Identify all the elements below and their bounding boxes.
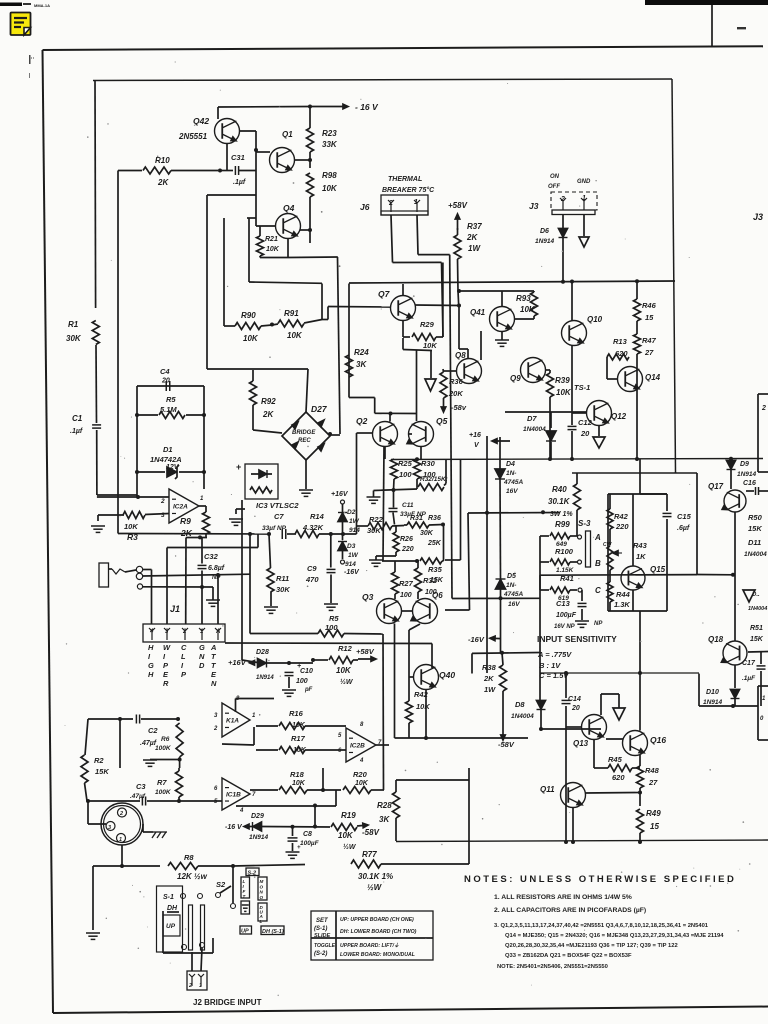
svg-text:R9: R9 <box>180 516 191 526</box>
svg-text:SET: SET <box>316 918 329 924</box>
svg-text:2: 2 <box>761 405 766 412</box>
svg-text:R32/15K:: R32/15K: <box>420 476 448 483</box>
svg-text:Q15: Q15 <box>650 565 666 574</box>
svg-text:10K: 10K <box>336 666 352 675</box>
svg-text:20: 20 <box>580 429 590 438</box>
svg-text:914: 914 <box>345 561 356 568</box>
svg-text:-16 V: -16 V <box>225 824 243 831</box>
svg-text:30K: 30K <box>420 530 434 537</box>
svg-text:-58V: -58V <box>362 828 380 837</box>
svg-text:Q14 = MJE350; Q15 = 2N4320; Q1: Q14 = MJE350; Q15 = 2N4320; Q16 = MJE348… <box>505 933 724 939</box>
svg-text:15: 15 <box>645 313 654 322</box>
svg-text:1: 1 <box>119 837 122 843</box>
svg-text:15: 15 <box>650 822 659 831</box>
svg-text:16V: 16V <box>506 488 518 495</box>
svg-text:Q16: Q16 <box>650 735 666 745</box>
svg-text:TS-1: TS-1 <box>574 383 590 392</box>
svg-text:+: + <box>236 462 241 472</box>
svg-text:C15: C15 <box>677 512 692 521</box>
svg-text:5.1M: 5.1M <box>160 405 177 414</box>
svg-text:2: 2 <box>160 498 165 505</box>
svg-text:R24: R24 <box>354 348 369 357</box>
svg-text:470: 470 <box>305 575 319 584</box>
svg-text:10K: 10K <box>243 334 259 343</box>
svg-text:L: L <box>260 919 263 924</box>
svg-text:1N4742A: 1N4742A <box>150 455 182 464</box>
svg-text:½W: ½W <box>367 883 383 892</box>
svg-text:J6: J6 <box>360 202 370 212</box>
svg-text:R36: R36 <box>449 377 464 386</box>
svg-text:100K: 100K <box>155 789 172 796</box>
svg-text:A = .775V: A = .775V <box>537 650 572 659</box>
svg-text:R99: R99 <box>555 520 570 529</box>
svg-text:2: 2 <box>182 629 187 635</box>
svg-text:220: 220 <box>401 546 414 553</box>
svg-text:½W: ½W <box>340 678 354 686</box>
svg-text:D2: D2 <box>347 509 356 516</box>
svg-text:R16: R16 <box>289 709 304 718</box>
svg-text:GND: GND <box>577 179 591 185</box>
svg-text:C13: C13 <box>556 599 571 608</box>
svg-text:R38: R38 <box>482 663 497 672</box>
svg-text:R20: R20 <box>353 770 368 779</box>
svg-text:S2: S2 <box>216 880 226 889</box>
svg-text:BRIDGE: BRIDGE <box>292 430 316 436</box>
svg-text:R51: R51 <box>750 625 763 632</box>
svg-text:R22: R22 <box>369 515 384 524</box>
svg-text:R1: R1 <box>68 320 79 329</box>
svg-text:15K: 15K <box>750 636 764 643</box>
svg-text:TOGGLE: TOGGLE <box>314 943 336 949</box>
svg-text:Q9: Q9 <box>510 374 521 383</box>
svg-text:Q6: Q6 <box>432 591 443 600</box>
svg-text:1W: 1W <box>348 552 359 559</box>
svg-text:B: B <box>595 559 601 568</box>
svg-text:220: 220 <box>615 522 629 531</box>
svg-text:.47µf: .47µf <box>130 793 146 800</box>
svg-text:A: A <box>215 629 220 635</box>
svg-text:-58v: -58v <box>451 403 467 412</box>
svg-text:30K: 30K <box>66 334 82 343</box>
svg-text:1. ALL RESISTORS ARE IN OHMS: 1. ALL RESISTORS ARE IN OHMS 1/4W 5% <box>494 894 632 901</box>
svg-text:Q12: Q12 <box>611 412 627 421</box>
svg-text:Q17: Q17 <box>708 482 724 491</box>
svg-text:N: N <box>199 652 205 661</box>
svg-text:S-2: S-2 <box>248 871 257 877</box>
svg-text:R30: R30 <box>421 459 436 468</box>
svg-text:6.8µf: 6.8µf <box>208 565 225 572</box>
svg-text:R6: R6 <box>161 736 170 743</box>
svg-text:REC: REC <box>298 438 311 444</box>
svg-text:R2: R2 <box>94 756 104 765</box>
svg-text:4: 4 <box>239 808 244 814</box>
svg-text:C10: C10 <box>300 668 313 675</box>
svg-text:D8: D8 <box>515 700 525 709</box>
svg-text:33K: 33K <box>322 140 338 149</box>
svg-text:20: 20 <box>571 705 580 712</box>
svg-text:Q10: Q10 <box>587 315 603 324</box>
svg-text:C12: C12 <box>578 418 593 427</box>
svg-text:25K: 25K <box>427 540 442 547</box>
svg-text:10K: 10K <box>322 184 338 193</box>
svg-text:+58V: +58V <box>448 201 468 210</box>
svg-text:+: + <box>297 845 301 851</box>
svg-text:C11: C11 <box>402 502 414 509</box>
svg-text:R13: R13 <box>613 337 628 346</box>
svg-text:D6: D6 <box>540 228 549 235</box>
svg-text:4745A: 4745A <box>503 479 523 486</box>
svg-text:10K: 10K <box>355 780 369 787</box>
svg-text:R23: R23 <box>322 129 337 138</box>
svg-text:R45: R45 <box>608 755 623 764</box>
svg-text:IC2B: IC2B <box>350 743 365 750</box>
svg-text:DH: LOWER BOARD (CH TWO): DH: LOWER BOARD (CH TWO) <box>340 929 417 935</box>
svg-text:3K: 3K <box>379 815 390 824</box>
svg-text:DH (S-1): DH (S-1) <box>262 929 284 935</box>
svg-text:100: 100 <box>399 470 412 479</box>
svg-text:J3: J3 <box>529 201 539 211</box>
svg-text:R93: R93 <box>516 294 531 303</box>
svg-text:1N914: 1N914 <box>256 675 274 681</box>
svg-text:Q1: Q1 <box>282 130 293 139</box>
svg-text:Q40: Q40 <box>439 670 455 680</box>
svg-text:1.3K: 1.3K <box>614 600 630 609</box>
svg-text:H: H <box>148 643 154 652</box>
svg-text:O: O <box>260 884 264 889</box>
svg-text:½W: ½W <box>343 843 357 851</box>
svg-text:LOWER BOARD: MONO/DUAL: LOWER BOARD: MONO/DUAL <box>340 952 415 958</box>
svg-text:R: R <box>163 679 169 688</box>
svg-text:16V: 16V <box>508 601 520 608</box>
svg-text:Q13: Q13 <box>573 739 589 748</box>
svg-text:C1: C1 <box>72 414 83 423</box>
svg-text:2K: 2K <box>157 178 169 187</box>
svg-text:1: 1 <box>199 983 202 989</box>
svg-text:R91: R91 <box>284 309 299 318</box>
svg-text:3: 3 <box>108 825 111 831</box>
svg-text:10K: 10K <box>556 388 572 397</box>
svg-text:C7: C7 <box>274 512 284 521</box>
svg-text:30.1K 1%: 30.1K 1% <box>358 872 393 881</box>
svg-text:R44: R44 <box>616 590 631 599</box>
svg-text:Q33 = ZB162DA Q21 = BOX54F: Q33 = ZB162DA Q21 = BOX54F Q22 = BOX53F <box>505 953 632 959</box>
svg-text:2: 2 <box>119 811 123 817</box>
svg-text:S-3: S-3 <box>578 519 591 528</box>
svg-text:Q41: Q41 <box>470 308 486 317</box>
svg-text:(S-1): (S-1) <box>314 926 327 932</box>
svg-text:C: C <box>181 643 187 652</box>
svg-text:IC3 VTLSC2: IC3 VTLSC2 <box>256 501 299 510</box>
svg-text:SLIDE: SLIDE <box>314 933 331 939</box>
svg-text:R25: R25 <box>398 459 413 468</box>
svg-text:UP: UP <box>166 923 176 930</box>
svg-text:914: 914 <box>349 527 360 534</box>
svg-text:.1µf: .1µf <box>70 428 83 435</box>
svg-text:Q5: Q5 <box>436 416 448 426</box>
svg-text:G: G <box>148 661 154 670</box>
svg-text:1N4004: 1N4004 <box>748 606 767 612</box>
svg-text:D1: D1 <box>163 445 173 454</box>
svg-text:1N-: 1N- <box>506 582 516 589</box>
svg-text:IC1B: IC1B <box>226 792 241 799</box>
svg-text:R77: R77 <box>362 850 377 859</box>
svg-text:R42: R42 <box>414 690 429 699</box>
svg-text:D27: D27 <box>311 404 328 414</box>
svg-text:100: 100 <box>296 678 308 685</box>
svg-text:Q2: Q2 <box>356 416 368 426</box>
svg-text:R98: R98 <box>322 171 337 180</box>
svg-text:D9: D9 <box>740 461 749 468</box>
svg-text:.6µf: .6µf <box>677 525 690 532</box>
svg-text:R46: R46 <box>642 301 657 310</box>
svg-text:UPPER BOARD: LIFT/⏚: UPPER BOARD: LIFT/⏚ <box>340 942 399 949</box>
svg-text:R28: R28 <box>377 801 392 810</box>
svg-text:10K: 10K <box>124 522 138 531</box>
svg-text:R11: R11 <box>276 574 289 583</box>
svg-text:R7: R7 <box>157 778 167 787</box>
svg-text:R27: R27 <box>399 579 414 588</box>
svg-text:D: D <box>199 661 205 670</box>
svg-text:1W: 1W <box>468 244 481 253</box>
svg-text:1N914: 1N914 <box>737 471 757 478</box>
svg-text:620: 620 <box>612 773 625 782</box>
svg-text:O: O <box>260 895 264 900</box>
svg-text:2K: 2K <box>262 410 274 419</box>
svg-text:R40: R40 <box>552 485 567 494</box>
svg-text:D10: D10 <box>706 689 719 696</box>
svg-text:INPUT SENSITIVITY: INPUT SENSITIVITY <box>537 634 617 644</box>
svg-text:100µF: 100µF <box>556 612 577 619</box>
svg-text:NOTE: 2N5401=2N5406, 2N5551=2N: NOTE: 2N5401=2N5406, 2N5551=2N5550 <box>497 964 608 970</box>
svg-text:N: N <box>211 679 217 688</box>
svg-text:IC2A: IC2A <box>173 504 188 511</box>
svg-text:C32: C32 <box>204 552 219 561</box>
svg-text:15K: 15K <box>748 524 762 533</box>
svg-text:R29: R29 <box>420 320 435 329</box>
svg-text:MMA-1A: MMA-1A <box>34 3 50 8</box>
svg-text:THERMAL: THERMAL <box>388 176 422 183</box>
svg-text:20K: 20K <box>448 389 463 398</box>
svg-text:BREAKER 75°C: BREAKER 75°C <box>382 186 435 194</box>
svg-text:+16V: +16V <box>331 491 349 498</box>
svg-text:C3: C3 <box>136 782 146 791</box>
svg-text:1N4004: 1N4004 <box>511 713 534 720</box>
svg-text:DH: DH <box>167 905 178 912</box>
svg-text:-16V: -16V <box>468 635 485 644</box>
svg-text:4745A: 4745A <box>503 591 523 598</box>
svg-text:C4: C4 <box>160 367 170 376</box>
svg-text:2: 2 <box>213 726 218 732</box>
svg-text:33µf NP: 33µf NP <box>262 525 287 532</box>
svg-text:3. Q1,2,3,5,11,13,17,24,37,40: 3. Q1,2,3,5,11,13,17,24,37,40,42 =2N5551… <box>494 923 709 929</box>
svg-text:27: 27 <box>648 778 658 787</box>
svg-text:R36: R36 <box>428 515 441 522</box>
svg-text:2: 2 <box>188 983 192 989</box>
svg-text:100K: 100K <box>155 745 172 752</box>
svg-text:16V NP: 16V NP <box>554 624 576 630</box>
svg-text:R10: R10 <box>155 156 170 165</box>
svg-text:R17: R17 <box>291 734 306 743</box>
svg-text:C2: C2 <box>148 726 158 735</box>
svg-text:D3: D3 <box>347 543 356 550</box>
svg-text:1.15K: 1.15K <box>556 567 575 574</box>
svg-text:10K: 10K <box>338 831 354 840</box>
svg-text:D29: D29 <box>251 813 264 820</box>
svg-text:UP: UP <box>241 929 249 935</box>
svg-text:-16V: -16V <box>344 569 360 576</box>
svg-text:4: 4 <box>149 629 154 635</box>
svg-text:Q42: Q42 <box>193 116 209 126</box>
svg-text:C8: C8 <box>303 831 312 838</box>
svg-text:2N5551: 2N5551 <box>178 132 208 141</box>
svg-text:L: L <box>181 652 186 661</box>
svg-text:10K: 10K <box>423 341 437 350</box>
svg-text:K1A: K1A <box>226 718 239 725</box>
svg-text:Q20,26,28,30,32,35,44 =MJE2119: Q20,26,28,30,32,35,44 =MJE21193 Q36 = TI… <box>505 943 678 949</box>
svg-text:C: C <box>595 586 601 595</box>
svg-text:.1µf: .1µf <box>233 179 246 186</box>
svg-text:J1: J1 <box>170 604 180 614</box>
svg-text:B : 1V: B : 1V <box>539 661 561 670</box>
svg-text:100: 100 <box>400 592 412 599</box>
svg-text:Q3: Q3 <box>362 592 374 602</box>
svg-text:R100: R100 <box>555 547 574 556</box>
svg-text:R18: R18 <box>290 770 305 779</box>
svg-text:Q4: Q4 <box>283 203 295 213</box>
svg-text:C17: C17 <box>742 660 756 667</box>
svg-text:R37: R37 <box>467 222 482 231</box>
svg-text:+58V: +58V <box>356 647 375 656</box>
svg-text:J2 BRIDGE INPUT: J2 BRIDGE INPUT <box>193 998 262 1007</box>
svg-text:C16: C16 <box>743 480 756 487</box>
svg-text:.1µF: .1µF <box>742 675 756 682</box>
svg-text:R43: R43 <box>633 541 648 550</box>
svg-text:1N914: 1N914 <box>249 834 269 841</box>
svg-text:Q11: Q11 <box>540 785 555 794</box>
svg-text:10K: 10K <box>266 246 280 253</box>
svg-text:Q18: Q18 <box>708 635 724 644</box>
svg-text:R5: R5 <box>166 395 176 404</box>
svg-text:R26: R26 <box>400 536 413 543</box>
svg-text:D11: D11 <box>748 538 761 547</box>
svg-text:R50: R50 <box>748 513 763 522</box>
svg-text:R5: R5 <box>329 614 339 623</box>
svg-text:D28: D28 <box>256 649 269 656</box>
svg-text:15K: 15K <box>95 767 109 776</box>
svg-text:2. ALL CAPACITORS ARE IN PICO: 2. ALL CAPACITORS ARE IN PICOFARADS (µF) <box>494 907 646 914</box>
svg-text:Q14: Q14 <box>645 373 661 382</box>
svg-text:2K: 2K <box>466 233 478 242</box>
svg-text:1W: 1W <box>484 685 496 694</box>
svg-text:CW: CW <box>603 542 613 548</box>
svg-text:NP: NP <box>594 621 603 627</box>
svg-text:30K: 30K <box>276 585 290 594</box>
svg-text:10K: 10K <box>416 702 430 711</box>
svg-text:D5: D5 <box>507 573 516 580</box>
svg-text:R92: R92 <box>261 397 276 406</box>
svg-text:R21: R21 <box>265 236 278 243</box>
svg-text:27: 27 <box>644 348 654 357</box>
svg-text:10K: 10K <box>287 331 303 340</box>
svg-text:S-1: S-1 <box>163 894 174 901</box>
svg-text:D7: D7 <box>527 414 537 423</box>
svg-text:D4: D4 <box>506 461 515 468</box>
svg-text:R8: R8 <box>184 853 194 862</box>
svg-text:10K: 10K <box>292 780 306 787</box>
svg-text:UP: UPPER BOARD (CH ONE): UP: UPPER BOARD (CH ONE) <box>340 917 414 923</box>
svg-text:ON: ON <box>550 174 560 180</box>
svg-text:OFF: OFF <box>548 184 560 190</box>
svg-text:12K ½w: 12K ½w <box>177 872 208 881</box>
svg-text:C9: C9 <box>307 564 317 573</box>
svg-text:C31: C31 <box>231 153 245 162</box>
svg-text:R42: R42 <box>614 512 629 521</box>
svg-text:R19: R19 <box>341 811 356 820</box>
svg-text:C14: C14 <box>568 696 581 703</box>
svg-text:R12: R12 <box>338 644 353 653</box>
svg-text:R47: R47 <box>642 336 657 345</box>
svg-text:H: H <box>148 670 154 679</box>
svg-text:100µF: 100µF <box>300 840 320 847</box>
svg-text:M: M <box>260 879 264 884</box>
svg-text:2K: 2K <box>483 674 494 683</box>
svg-text:+16: +16 <box>469 432 481 439</box>
svg-text:3K: 3K <box>356 360 367 369</box>
svg-text:Q7: Q7 <box>378 289 391 299</box>
svg-text:R49: R49 <box>646 809 661 818</box>
svg-text:R90: R90 <box>241 311 256 320</box>
svg-text:W: W <box>163 643 171 652</box>
svg-text:1N914: 1N914 <box>703 699 723 706</box>
svg-text:R35: R35 <box>428 565 443 574</box>
svg-text:NOTES: UNLESS OTHERWISE SPECI: NOTES: UNLESS OTHERWISE SPECIFIED <box>464 874 736 885</box>
svg-text:4: 4 <box>359 758 364 764</box>
svg-text:G: G <box>199 643 205 652</box>
svg-text:1N-: 1N- <box>506 470 516 477</box>
svg-text:(S-2): (S-2) <box>314 951 327 957</box>
svg-text:1N4004: 1N4004 <box>523 426 546 433</box>
svg-text:R39: R39 <box>555 376 570 385</box>
svg-text:1K: 1K <box>636 552 646 561</box>
svg-text:R48: R48 <box>645 766 660 775</box>
svg-text:+16V: +16V <box>228 658 247 667</box>
svg-text:A: A <box>210 643 216 652</box>
svg-text:- 16 V: - 16 V <box>355 102 379 112</box>
svg-text:D..: D.. <box>752 592 760 598</box>
svg-text:20: 20 <box>161 378 170 385</box>
svg-text:A: A <box>594 533 601 542</box>
svg-text:1N914: 1N914 <box>535 238 555 245</box>
svg-text:-58V: -58V <box>498 740 515 749</box>
svg-text:R14: R14 <box>310 512 325 521</box>
svg-text:30.1K: 30.1K <box>548 497 571 506</box>
svg-text:1W: 1W <box>349 518 360 525</box>
svg-text:J3: J3 <box>753 212 763 222</box>
svg-text:4.32K: 4.32K <box>302 523 324 532</box>
svg-text:R32: R32 <box>423 576 438 585</box>
svg-text:1N4004: 1N4004 <box>744 551 767 558</box>
